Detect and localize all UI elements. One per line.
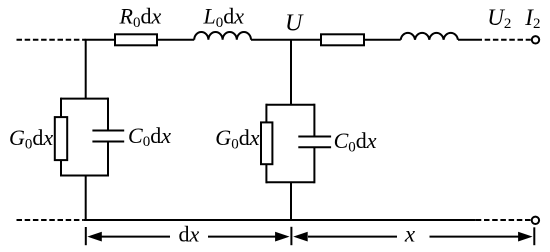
resistor G1 G0dx — [55, 117, 67, 160]
dimension x shaft left — [308, 236, 397, 238]
svg-text:x: x — [404, 222, 416, 247]
wire top-right dashed lead — [477, 39, 531, 41]
wire R0dx to L0dx — [157, 39, 194, 41]
wire shunt 2 bottom stub — [290, 182, 292, 220]
capacitor C1 C0dx plates — [92, 130, 124, 132]
dimension tick at node A — [85, 227, 87, 245]
svg-text:C0dx: C0dx — [334, 128, 377, 155]
capacitor C2 C0dx plates — [298, 136, 331, 138]
wire L0dx through node U to second resistor — [251, 39, 321, 41]
arrowhead dx left — [87, 232, 102, 242]
wire shunt 2 left lower — [265, 164, 267, 183]
dimension dx shaft left — [100, 236, 170, 238]
wire R2 to L2 — [364, 39, 401, 41]
wire bottom main — [83, 219, 476, 221]
dimension dx shaft right — [208, 236, 277, 238]
inductor L1 L0dx — [194, 32, 251, 40]
arrowhead dx right — [275, 232, 290, 242]
wire L2 to dashed lead — [458, 39, 477, 41]
wire shunt 2 loop top bar — [266, 104, 314, 106]
wire shunt 1 top stub — [85, 40, 87, 99]
wire shunt 1 loop top bar — [61, 98, 108, 100]
svg-text:R0dx: R0dx — [119, 4, 162, 31]
wire shunt 2 left upper — [265, 104, 267, 123]
svg-text:dx: dx — [179, 222, 200, 247]
svg-text:C0dx: C0dx — [128, 123, 171, 150]
svg-text:U: U — [285, 11, 304, 37]
wire cap 2 top lead — [313, 104, 315, 137]
resistor R1 R0dx — [115, 34, 157, 45]
resistor R2 (unlabeled) — [321, 34, 364, 45]
wire shunt 1 bottom stub — [85, 176, 87, 221]
wire top-left dashed lead — [17, 39, 86, 41]
wire shunt 1 left upper — [60, 98, 62, 118]
resistor G2 G0dx — [261, 122, 272, 164]
svg-text:L0dx: L0dx — [203, 4, 245, 31]
wire shunt 2 top stub — [290, 40, 292, 105]
terminal I2 circle — [532, 217, 539, 224]
dimension tick at right terminal — [533, 227, 535, 245]
wire cap 2 bottom lead — [313, 147, 315, 183]
arrowhead x right — [518, 232, 533, 242]
dimension x shaft right — [430, 236, 521, 238]
inductor L2 (unlabeled) — [401, 33, 458, 40]
wire shunt 1 loop bottom bar — [61, 175, 108, 177]
wire bottom-right dashed lead — [476, 219, 531, 221]
wire cap 1 bottom lead — [107, 142, 109, 177]
wire bottom-left dashed lead — [17, 219, 84, 221]
terminal U2 circle — [532, 36, 539, 43]
dimension tick at node U — [290, 227, 292, 245]
arrowhead x left — [293, 232, 308, 242]
wire shunt 2 loop bottom bar — [266, 181, 314, 183]
wire cap 1 top lead — [107, 98, 109, 131]
wire node A to R0dx — [85, 39, 115, 41]
wire shunt 1 left lower — [60, 160, 62, 176]
